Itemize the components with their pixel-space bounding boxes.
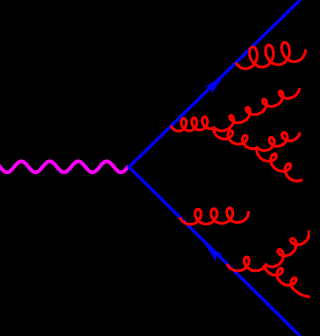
gluon g4 (from g2 splitting, lower branch) [214,128,258,149]
vertex: photon -> quark antiquark [127,165,130,168]
junction: g2 -> g3 g4 (gluon splitting) [213,126,216,129]
gluon g2 (radiated off quark, branches) [171,117,215,131]
junction: g4 -> g5 g6 (gluon splitting) [256,146,259,149]
junction: g8 -> g9 g10 (gluon splitting) [265,263,268,266]
gluon g10 (from g8 splitting, lower branch) [264,265,311,297]
gluon g5 (from g4 splitting, upper branch) [257,132,300,150]
antiquark line (vertex to bottom-right) [129,167,300,336]
quark line (vertex to top-right) [129,0,300,167]
arrow on antiquark line [204,243,223,262]
arrow on quark line [205,75,225,95]
gluon g7 (radiated off antiquark) [180,208,249,224]
gluon g8 (radiated off antiquark, branches) [227,257,266,271]
gluon g9 (from g8 splitting, upper branch) [266,231,309,267]
photon gamma (wavy line) [0,161,129,172]
gluon g6 (from g4 splitting, lower branch) [257,147,303,181]
gluon g3 (from g2 splitting, upper branch) [214,88,300,131]
gluon g1 (radiated off quark) [236,42,306,68]
